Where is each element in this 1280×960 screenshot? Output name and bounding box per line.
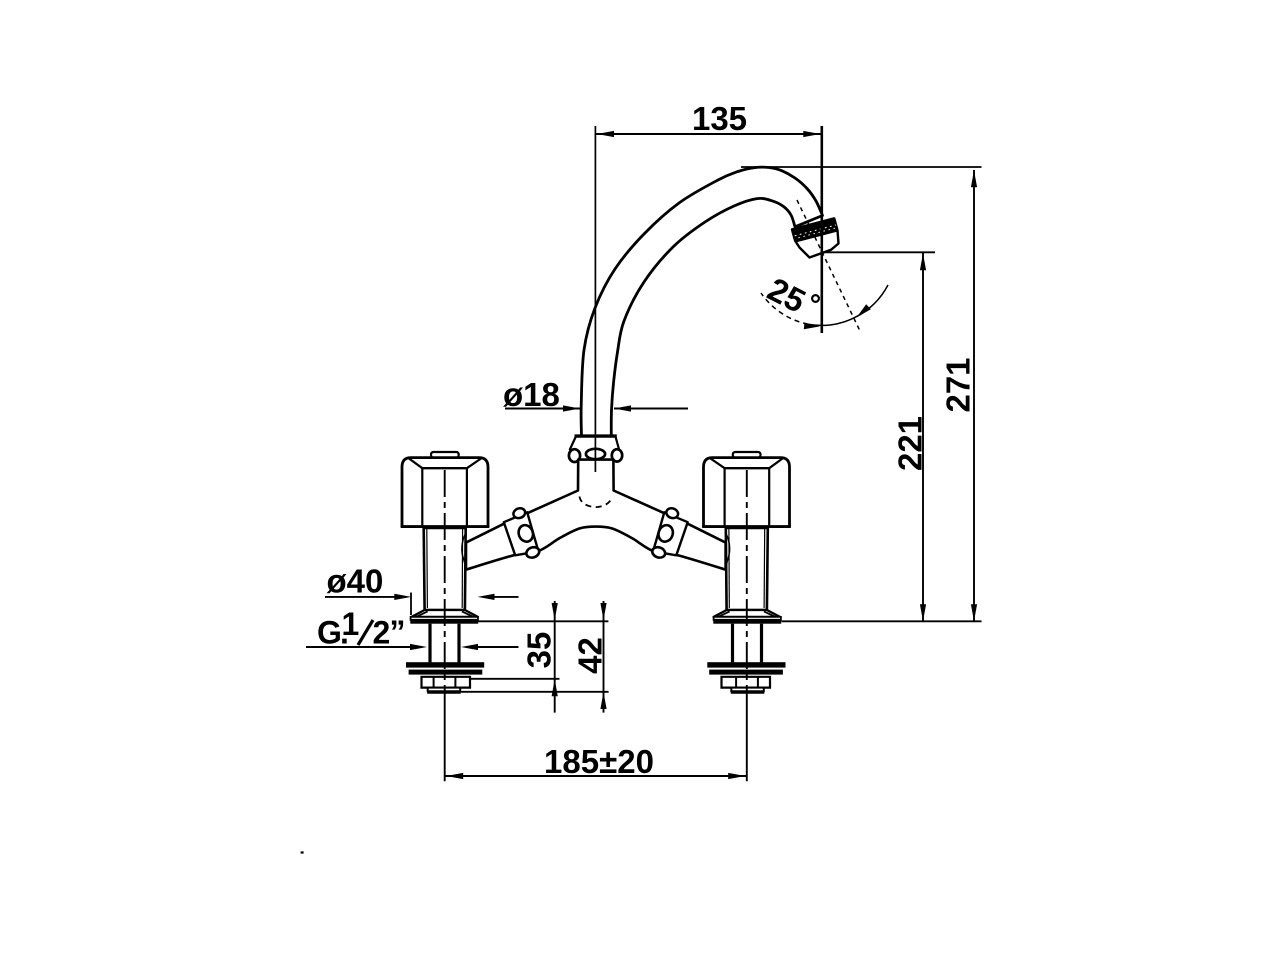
dim 25deg: dashed axis <box>797 200 861 332</box>
svg-text:35: 35 <box>521 632 558 669</box>
svg-text:ø18: ø18 <box>503 376 560 413</box>
knob top cap <box>431 452 459 457</box>
135 right extension / 25deg vertical reference <box>820 126 823 333</box>
stray dot <box>301 851 304 853</box>
spout tube <box>581 167 822 437</box>
hex nut <box>422 677 471 688</box>
dim o40 <box>325 563 519 616</box>
left tap assembly <box>401 452 490 781</box>
riser collar <box>569 436 622 462</box>
Y body: neck and arms <box>466 460 726 570</box>
handle knob <box>402 458 488 527</box>
column <box>424 528 466 610</box>
svg-text:185±20: 185±20 <box>544 743 654 780</box>
svg-text:”: ” <box>390 614 406 650</box>
dim 185+-20 <box>445 743 747 780</box>
svg-text:221: 221 <box>891 416 928 471</box>
deck extension line <box>478 620 609 622</box>
dim 135 <box>595 100 821 137</box>
arm socket curve on column <box>462 534 466 568</box>
svg-text:271: 271 <box>940 357 977 412</box>
nut lower collar <box>428 688 461 692</box>
aerator knurled ring <box>792 219 838 258</box>
bell flare <box>412 610 478 617</box>
left elbow union <box>504 507 541 560</box>
svg-text:135: 135 <box>692 100 747 137</box>
dim 42 <box>461 601 609 713</box>
label G.1/2" <box>306 606 519 651</box>
svg-text:2: 2 <box>373 615 391 651</box>
dim 35 <box>470 601 560 713</box>
right elbow union <box>651 507 688 560</box>
centerline <box>444 470 446 694</box>
svg-text:1: 1 <box>342 606 360 642</box>
base plate <box>411 617 478 620</box>
svg-text:G: G <box>317 615 342 651</box>
dim 221 <box>824 252 935 621</box>
dim o18 <box>503 376 688 413</box>
spout vertical centerline / 135 left extension <box>594 126 596 472</box>
svg-text:ø40: ø40 <box>327 563 384 600</box>
dim 271 <box>741 167 982 621</box>
threaded shank <box>428 624 431 663</box>
hidden fillet arc (dashed) <box>580 497 612 508</box>
25deg arc <box>808 285 888 325</box>
washers <box>406 662 484 667</box>
svg-text:42: 42 <box>571 637 608 674</box>
aerator cup <box>796 230 839 257</box>
